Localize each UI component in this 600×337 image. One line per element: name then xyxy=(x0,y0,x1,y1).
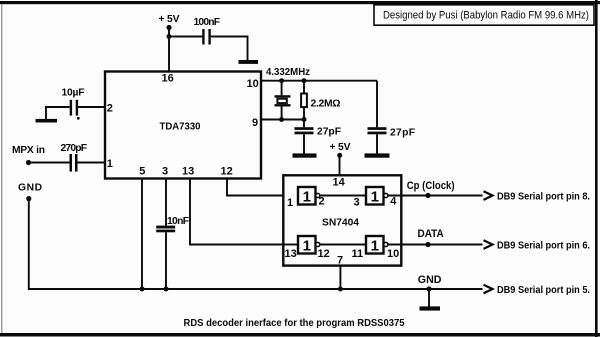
MPX in terminal xyxy=(12,145,45,165)
svg-text:10µF: 10µF xyxy=(62,87,85,98)
wire gate C to gate D xyxy=(320,244,366,246)
inverter gate B xyxy=(366,187,388,206)
wire pin 12 to U2 pin 1 xyxy=(227,179,298,196)
pin 12 label (U2) xyxy=(318,248,330,260)
capacitor C 27pF right xyxy=(368,127,416,153)
svg-text:1: 1 xyxy=(287,197,293,209)
svg-text:270pF: 270pF xyxy=(61,143,88,154)
pin 5 label xyxy=(139,166,145,178)
wire +5V to pin 16 xyxy=(168,28,170,72)
pin 10 label xyxy=(247,78,259,90)
pin 3 label xyxy=(162,166,168,178)
svg-text:5: 5 xyxy=(139,166,145,178)
capacitor C 270pF xyxy=(61,143,88,172)
svg-text:1: 1 xyxy=(371,189,379,206)
wire junction to C 100nF xyxy=(169,36,203,38)
pin 1 label (U2) xyxy=(287,197,293,209)
node junction at 100nF tap xyxy=(167,34,172,39)
svg-text:1: 1 xyxy=(303,189,311,206)
svg-text:14: 14 xyxy=(333,176,346,188)
wire pin 7 to trunk xyxy=(339,266,341,289)
svg-text:RDS decoder inerface for the p: RDS decoder inerface for the program RDS… xyxy=(184,318,405,329)
pin 3 label (U2) xyxy=(354,197,360,209)
node resistor top xyxy=(302,78,307,83)
frame top bar xyxy=(0,1,600,4)
svg-text:12: 12 xyxy=(318,248,330,260)
label Cp (Clock) xyxy=(407,180,455,192)
pin 10 label (U2) xyxy=(387,248,399,260)
node Cp xyxy=(425,193,430,198)
node pin5-trunk xyxy=(140,287,145,292)
capacitor 100nF xyxy=(194,17,221,45)
capacitor C 10uF xyxy=(62,87,85,119)
svg-text:4.332MHz: 4.332MHz xyxy=(266,67,310,78)
svg-text:3: 3 xyxy=(162,166,168,178)
wire GND stub xyxy=(428,289,430,307)
node pin9-crystal xyxy=(279,117,284,122)
wire pin 3 upper xyxy=(165,179,167,226)
pin 12 label xyxy=(221,166,233,178)
label DB9 pin 6 xyxy=(497,240,590,251)
svg-text:2: 2 xyxy=(107,102,113,114)
pin 1 label xyxy=(107,158,113,170)
IC U1 TDA7330 xyxy=(105,72,261,179)
label GND right xyxy=(418,274,442,286)
inverter gate A xyxy=(298,187,320,206)
node pin3-trunk xyxy=(164,287,169,292)
svg-text:+ 5V: + 5V xyxy=(159,14,180,25)
pin 13 label xyxy=(182,166,194,178)
wire gate C input xyxy=(283,244,298,246)
label DATA xyxy=(418,228,444,240)
pin 11 label (U2) xyxy=(352,248,364,260)
wire pin 2 xyxy=(46,106,105,119)
svg-text:GND: GND xyxy=(418,274,442,286)
svg-text:1: 1 xyxy=(107,158,113,170)
pin 7 label xyxy=(337,255,343,267)
pin 2 label (U2) xyxy=(319,196,325,208)
svg-text:10: 10 xyxy=(387,248,399,260)
capacitor C 27pF left xyxy=(295,120,342,154)
ground (100nF) xyxy=(239,60,259,64)
wire pin 9 xyxy=(261,119,304,121)
node pin9-resistor xyxy=(302,117,307,122)
svg-text:GND: GND xyxy=(18,183,42,194)
ground (27pF left) xyxy=(293,153,317,157)
svg-text:Designed by Pusi (Babylon Radi: Designed by Pusi (Babylon Radio FM 99.6 … xyxy=(383,10,589,22)
svg-text:MPX in: MPX in xyxy=(12,145,45,156)
node pin7-trunk xyxy=(338,287,343,292)
wire pin 1 xyxy=(29,162,106,164)
pin 4 label (U2) xyxy=(390,196,397,208)
IC U2 SN7404 xyxy=(283,175,401,265)
svg-text:12: 12 xyxy=(221,166,233,178)
svg-text:13: 13 xyxy=(182,166,194,178)
svg-text:13: 13 xyxy=(285,248,297,260)
arrow Cp xyxy=(484,191,493,200)
label DB9 pin 8 xyxy=(497,191,590,202)
svg-text:+ 5V: + 5V xyxy=(330,142,351,153)
frame left line xyxy=(1,4,2,333)
svg-text:27pF: 27pF xyxy=(390,127,415,138)
label 4.332MHz xyxy=(266,67,310,78)
inverter gate C xyxy=(298,236,320,255)
arrow GND xyxy=(484,285,493,294)
node crystal top xyxy=(279,78,284,83)
svg-text:DB9 Serial port pin 8.: DB9 Serial port pin 8. xyxy=(497,191,590,202)
svg-text:10: 10 xyxy=(247,78,259,90)
svg-text:27pF: 27pF xyxy=(317,126,341,137)
pin 13 label (U2) xyxy=(285,248,297,260)
+5V supply terminal (top) xyxy=(159,14,180,30)
+5V supply terminal (mid) xyxy=(330,142,351,158)
resistor R1 2.2M xyxy=(301,81,340,120)
svg-text:TDA7330: TDA7330 xyxy=(160,122,201,133)
svg-text:10nF: 10nF xyxy=(167,216,189,227)
svg-text:DATA: DATA xyxy=(418,228,444,240)
svg-text:2: 2 xyxy=(319,196,325,208)
label DB9 pin 5 xyxy=(497,285,590,296)
inverter gate D xyxy=(366,236,388,255)
svg-text:100nF: 100nF xyxy=(194,17,221,28)
wire pin 13 to U2 pin 13 xyxy=(190,179,298,245)
GND terminal left xyxy=(18,183,42,202)
svg-text:9: 9 xyxy=(252,117,258,129)
wire 100nF to ground xyxy=(211,37,248,61)
wire gate B to Cp output xyxy=(388,195,483,197)
wire gate D to DATA output xyxy=(388,244,483,246)
ground (27pF right) xyxy=(365,153,390,157)
wire GND trunk xyxy=(29,199,483,289)
pin 9 label xyxy=(252,117,258,129)
svg-text:SN7404: SN7404 xyxy=(322,218,359,229)
wire pin 10 bus xyxy=(261,80,377,82)
wire gate A to gate B xyxy=(320,195,366,197)
svg-text:DB9 Serial port pin 5.: DB9 Serial port pin 5. xyxy=(497,285,590,296)
pin 16 label xyxy=(162,73,174,85)
wire pin 3 lower xyxy=(165,232,167,289)
wire right 27pF branch xyxy=(376,81,378,128)
ground (bottom right) xyxy=(420,306,441,310)
node DATA xyxy=(425,242,430,247)
svg-text:7: 7 xyxy=(337,255,343,267)
svg-text:1: 1 xyxy=(303,238,311,255)
node GND right xyxy=(426,286,431,291)
svg-text:11: 11 xyxy=(352,248,364,260)
pin 14 label xyxy=(333,176,346,188)
svg-text:16: 16 xyxy=(162,73,174,85)
svg-text:4: 4 xyxy=(390,196,397,208)
caption xyxy=(184,318,405,329)
pin 2 label xyxy=(107,102,113,114)
svg-text:Cp (Clock): Cp (Clock) xyxy=(407,180,455,192)
svg-text:1: 1 xyxy=(371,238,379,255)
wire +5V to pin 14 xyxy=(339,156,341,176)
title box xyxy=(374,5,594,25)
svg-text:2.2MΩ: 2.2MΩ xyxy=(311,98,341,109)
svg-text:DB9 Serial port pin 6.: DB9 Serial port pin 6. xyxy=(497,240,590,251)
frame bottom bar xyxy=(0,333,600,337)
arrow DATA xyxy=(484,240,493,249)
frame right bar xyxy=(595,0,598,337)
svg-text:3: 3 xyxy=(354,197,360,209)
ground (10uF) xyxy=(36,119,58,123)
capacitor C 10nF xyxy=(156,216,189,232)
crystal X1 xyxy=(275,81,291,120)
wire pin 5 to trunk xyxy=(141,179,143,290)
